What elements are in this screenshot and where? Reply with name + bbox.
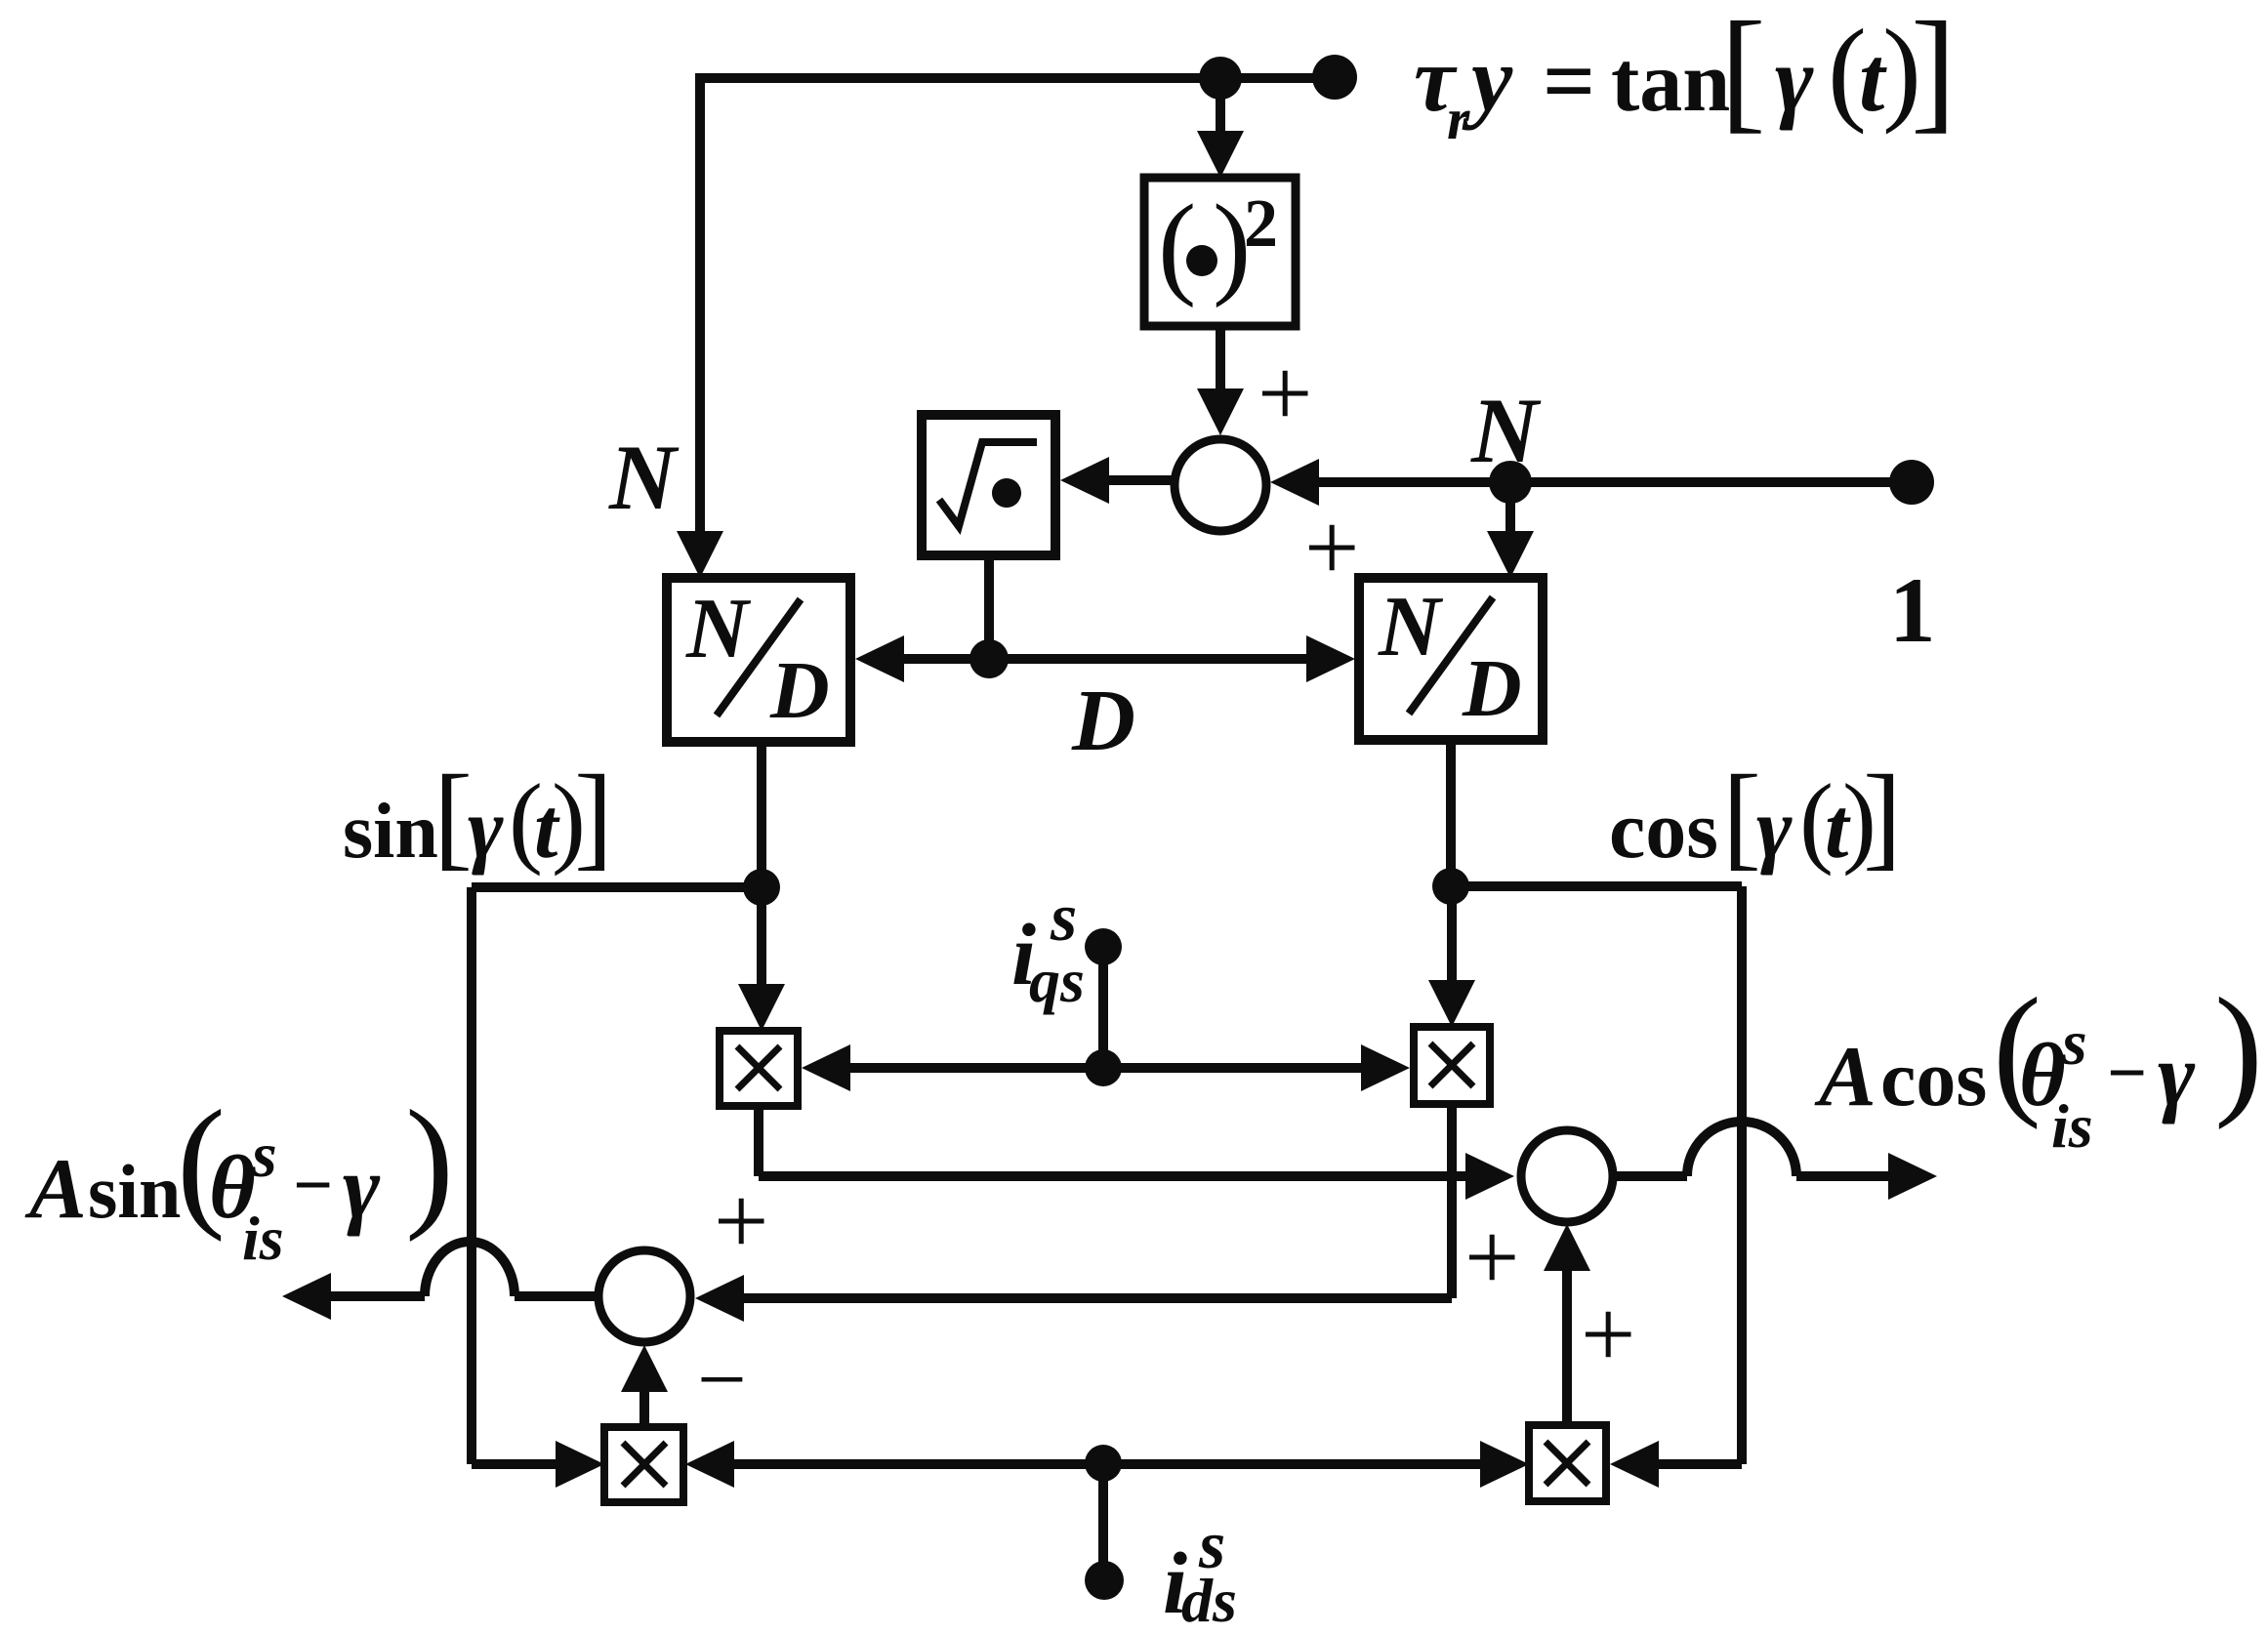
- svg-text:]: ]: [1911, 0, 1957, 145]
- svg-text:+: +: [1464, 1203, 1519, 1311]
- svg-text:is: is: [242, 1204, 284, 1273]
- svg-text:[: [: [1722, 751, 1761, 880]
- svg-text:γ: γ: [2158, 1025, 2196, 1124]
- svg-text:sin: sin: [343, 789, 438, 875]
- svg-text:D: D: [769, 645, 830, 736]
- svg-text:+: +: [1581, 1280, 1635, 1388]
- svg-text:γ: γ: [343, 1137, 381, 1237]
- svg-text:1: 1: [1889, 558, 1936, 662]
- svg-text:qs: qs: [1029, 946, 1085, 1015]
- svg-text:γ: γ: [468, 782, 504, 877]
- svg-text:−: −: [2107, 1034, 2147, 1112]
- svg-text:tan: tan: [1611, 35, 1730, 130]
- svg-text:−: −: [697, 1331, 747, 1428]
- svg-text:=: =: [1543, 29, 1595, 133]
- svg-text:+: +: [1258, 339, 1312, 447]
- svg-text:+: +: [714, 1166, 768, 1275]
- svg-text:): ): [2214, 968, 2263, 1130]
- svg-text:D: D: [1462, 643, 1522, 734]
- svg-text:cos: cos: [1609, 785, 1718, 876]
- svg-text:(: (: [1158, 181, 1196, 308]
- svg-text:]: ]: [1863, 751, 1902, 880]
- svg-text:[: [: [1720, 0, 1766, 145]
- svg-text:]: ]: [574, 751, 613, 880]
- svg-text:cos: cos: [1880, 1034, 1987, 1123]
- svg-text:2: 2: [1244, 186, 1278, 262]
- svg-text:γ: γ: [1756, 782, 1793, 877]
- svg-text:sin: sin: [88, 1149, 181, 1234]
- svg-text:A: A: [1814, 1030, 1876, 1124]
- svg-text:ds: ds: [1181, 1566, 1237, 1635]
- svg-text:r: r: [1447, 87, 1470, 151]
- svg-text:D: D: [1071, 673, 1135, 769]
- svg-text:A: A: [24, 1142, 87, 1237]
- svg-text:−: −: [293, 1146, 333, 1224]
- svg-text:is: is: [2051, 1091, 2093, 1161]
- svg-text:s: s: [251, 1120, 277, 1191]
- svg-text:[: [: [433, 751, 473, 880]
- svg-text:s: s: [1050, 880, 1077, 956]
- svg-text:N: N: [1378, 580, 1444, 674]
- svg-text:): ): [405, 1081, 454, 1243]
- svg-text:γ: γ: [1775, 27, 1814, 131]
- svg-text:N: N: [685, 582, 752, 676]
- svg-text:s: s: [2061, 1007, 2087, 1079]
- svg-text:+: +: [1304, 493, 1359, 601]
- svg-text:N: N: [1470, 379, 1542, 482]
- svg-text:N: N: [608, 426, 680, 529]
